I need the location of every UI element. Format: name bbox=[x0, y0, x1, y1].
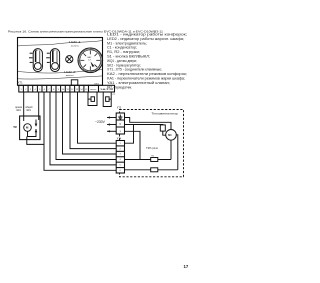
svg-text:С1: С1 bbox=[113, 94, 117, 96]
svg-text:13: 13 bbox=[76, 89, 79, 91]
svg-text:11: 11 bbox=[67, 89, 70, 91]
svg-text:ТМ: ТМ bbox=[13, 126, 16, 129]
wire L down to heater line bbox=[125, 131, 141, 159]
svg-text:YA1 - электромагнитный клапан;: YA1 - электромагнитный клапан; bbox=[107, 81, 170, 85]
svg-text:ХТ4: ХТ4 bbox=[117, 137, 122, 140]
svg-text:8: 8 bbox=[53, 89, 55, 91]
panel curve bottom bbox=[18, 76, 103, 79]
connector XT2 box b bbox=[99, 85, 115, 92]
svg-text:15: 15 bbox=[85, 89, 88, 91]
svg-text:WQ1 - датчик двери;: WQ1 - датчик двери; bbox=[107, 59, 137, 63]
switch SA2 bbox=[46, 49, 59, 72]
wire to motor box right bbox=[38, 92, 40, 120]
wire bus 4 bbox=[63, 92, 117, 154]
svg-text:ХТ1: ХТ1 bbox=[18, 81, 23, 85]
panel curve top bbox=[18, 41, 103, 47]
wire N to thermal cutout bbox=[125, 124, 163, 126]
svg-text:М1: М1 bbox=[168, 133, 172, 137]
wire bus 6 bbox=[78, 92, 117, 143]
svg-text:1-У: 1-У bbox=[88, 60, 92, 62]
connector XT3 (3 cells) bbox=[116, 113, 124, 134]
svg-text:2: 2 bbox=[25, 89, 27, 91]
svg-text:14: 14 bbox=[80, 89, 83, 91]
oven unit dashed box bbox=[120, 110, 184, 177]
fan motor M1 bbox=[166, 130, 177, 141]
svg-text:4: 4 bbox=[35, 89, 37, 91]
svg-text:М1 - электродвигатель;: М1 - электродвигатель; bbox=[107, 41, 147, 45]
svg-text:~230V: ~230V bbox=[95, 120, 106, 124]
svg-text:жёлт.: жёлт. bbox=[66, 75, 75, 77]
svg-text:10: 10 bbox=[62, 89, 65, 91]
wire inside TM1 bbox=[27, 131, 36, 139]
svg-text:LED2 - индикатор работы жарочн: LED2 - индикатор работы жарочн. шкафа; bbox=[107, 37, 184, 41]
thermal cutout SK bbox=[160, 125, 165, 131]
svg-text:ЖК1: ЖК1 bbox=[26, 110, 31, 112]
svg-text:6: 6 bbox=[44, 89, 46, 91]
svg-text:LED-1: LED-1 bbox=[69, 40, 81, 44]
fuse FU1 loop bbox=[88, 92, 97, 106]
control panel box bbox=[18, 38, 103, 86]
svg-text:М: М bbox=[26, 126, 29, 130]
component S1 above strip bbox=[71, 80, 78, 86]
svg-text:17: 17 bbox=[184, 264, 189, 269]
switch SA1 bbox=[29, 49, 42, 72]
svg-text:XT1...XT5 - соединители клеммн: XT1...XT5 - соединители клеммные; bbox=[107, 68, 162, 72]
wire bus 5 bbox=[70, 92, 116, 149]
wire bus 2 bbox=[50, 92, 116, 165]
svg-text:LED-2: LED-2 bbox=[64, 70, 76, 74]
connector XT4 (6 cells) bbox=[116, 141, 124, 174]
svg-text:время: время bbox=[15, 107, 22, 109]
legend bbox=[107, 33, 187, 90]
heater EK1 bbox=[125, 140, 172, 161]
svg-text:R1, R2 - нагрузки;: R1, R2 - нагрузки; bbox=[107, 50, 140, 54]
wire to motor box left bbox=[23, 92, 25, 121]
svg-text:S1 - кнопка ВКЛ/ВЫКЛ;: S1 - кнопка ВКЛ/ВЫКЛ; bbox=[107, 55, 150, 59]
svg-text:ТЭН гриля: ТЭН гриля bbox=[146, 147, 159, 150]
motor M in TM1 bbox=[24, 124, 32, 132]
svg-text:1: 1 bbox=[21, 89, 23, 91]
svg-text:SK2 - терморегулятор;: SK2 - терморегулятор; bbox=[107, 63, 141, 67]
heater EK2 bbox=[125, 135, 178, 172]
motor unit TM1 box bbox=[20, 116, 40, 140]
terminal numbers bbox=[21, 89, 89, 91]
wire motor output jog bbox=[27, 140, 44, 145]
svg-text:9: 9 bbox=[58, 89, 60, 91]
ground symbol in XT3 bbox=[118, 115, 122, 120]
svg-text:5: 5 bbox=[39, 89, 41, 91]
wire ground jog to fan bbox=[125, 118, 172, 130]
svg-text:7: 7 bbox=[48, 89, 50, 91]
svg-text:KA2 - переключатели режимов ко: KA2 - переключатели режимов конфорок; bbox=[107, 72, 187, 76]
svg-text:12: 12 bbox=[71, 89, 74, 91]
wire XT4-1 up-join bbox=[125, 125, 134, 144]
svg-text:ХТ3: ХТ3 bbox=[117, 107, 122, 110]
connector XT2 box a bbox=[89, 85, 99, 92]
lamp HL1 bbox=[66, 56, 73, 63]
timer PT1 bbox=[78, 48, 103, 73]
svg-text:КА2: КА2 bbox=[35, 49, 40, 52]
connector XT1 strip bbox=[19, 85, 89, 92]
svg-text:зелён.: зелён. bbox=[71, 45, 80, 47]
svg-text:ЗАЗ.М: ЗАЗ.М bbox=[100, 88, 114, 91]
svg-text:Тепловентилятор: Тепловентилятор bbox=[152, 113, 179, 116]
svg-text:KA1 - переключатели режимов жа: KA1 - переключатели режимов жарки шкафа; bbox=[107, 77, 185, 81]
thermal contact in TM1 bbox=[35, 120, 38, 136]
svg-text:3: 3 bbox=[30, 89, 32, 91]
svg-text:КА1: КА1 bbox=[52, 49, 57, 52]
wire bus 3 bbox=[56, 92, 116, 160]
wire bus 1 bbox=[44, 92, 116, 170]
capacitor C1 loop bbox=[103, 92, 116, 107]
svg-text:общий: общий bbox=[25, 106, 33, 109]
svg-text:ЖК1: ЖК1 bbox=[16, 110, 21, 112]
panel curve middle bbox=[18, 70, 103, 74]
svg-text:охл.: охл. bbox=[90, 89, 97, 91]
svg-text:LED1 - индикатор работы конфор: LED1 - индикатор работы конфорок; bbox=[107, 33, 187, 37]
svg-text:С1 - конденсатор;: С1 - конденсатор; bbox=[107, 46, 137, 50]
